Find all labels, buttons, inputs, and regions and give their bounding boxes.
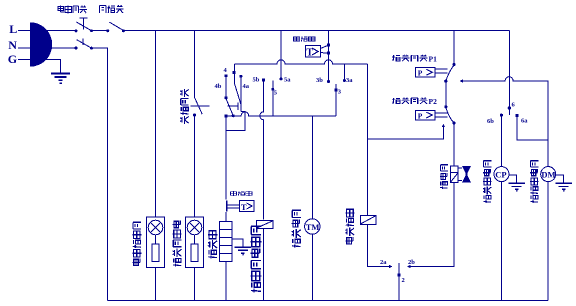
svg-text:TM: TM: [306, 222, 320, 232]
wire heater ground branch: [232, 239, 243, 247]
contact 5b: [260, 78, 265, 219]
wire DM ground branch: [556, 175, 564, 183]
relay coil K2 dispenser: [361, 216, 376, 225]
contact P1 NO arrow: [459, 79, 462, 82]
label thermostat T1: [294, 37, 315, 42]
switch blade P1: [446, 65, 454, 81]
node P2 common: [444, 105, 447, 108]
svg-text:2a: 2a: [380, 259, 387, 266]
pole 3: [334, 84, 337, 116]
svg-text:4: 4: [224, 67, 228, 74]
label water level switch P1: [392, 55, 428, 61]
wire program rail y115: [226, 112, 336, 116]
label contact 4: [224, 67, 228, 74]
wire top supply rail: [123, 30, 509, 32]
lamp HL2 heating indicator: [186, 217, 204, 268]
wire L to switch: [30, 30, 77, 32]
svg-text:6: 6: [512, 102, 516, 109]
motor CP circulation pump: [494, 167, 509, 182]
wire common 4 from rail: [233, 64, 235, 82]
label contact 4a: [243, 83, 250, 90]
wire heater to bus: [225, 262, 227, 301]
wire 3a stub: [343, 64, 345, 79]
label contact 3b: [316, 77, 323, 84]
label door switch: [100, 5, 124, 13]
inlet valve coil YV: [451, 166, 459, 183]
thermostat T1: [306, 46, 328, 59]
label power indicator lamp: [133, 222, 142, 265]
wire 2b to inlet valve: [411, 183, 454, 267]
label contact 6a: [521, 118, 528, 125]
node P1 throw: [444, 80, 447, 83]
wire N lead: [18, 47, 30, 49]
wire P1 common drop: [453, 31, 455, 64]
svg-text:5: 5: [274, 90, 278, 97]
wire lamp1 to bus: [155, 268, 157, 301]
wire P2 right to valve: [453, 123, 455, 166]
switch blade P2: [446, 107, 454, 122]
svg-text:3a: 3a: [346, 77, 353, 84]
wire 3b drop: [328, 31, 330, 81]
label contact 3a: [346, 77, 353, 84]
label contact 5: [274, 90, 278, 97]
svg-text:P2: P2: [429, 97, 438, 106]
wire G lead: [18, 59, 30, 61]
svg-text:N: N: [8, 38, 17, 52]
svg-text:P1: P1: [429, 55, 438, 64]
wire N rail left: [92, 48, 108, 301]
svg-text:2b: 2b: [408, 259, 415, 266]
wire control rail y63: [235, 60, 368, 64]
svg-text:6a: 6a: [521, 118, 528, 125]
switch blade 4 lower: [226, 99, 233, 115]
wire lamp2 to bus: [194, 268, 196, 301]
label contact 5a: [284, 77, 291, 84]
label contact 2a: [380, 259, 387, 266]
label contact 6b: [487, 118, 494, 125]
pressure switch P2 box: [416, 110, 448, 120]
label heater: [208, 231, 217, 259]
svg-text:L: L: [9, 22, 17, 36]
svg-text:5b: 5b: [253, 77, 260, 84]
wire selector drop: [194, 31, 196, 98]
svg-text:T: T: [306, 48, 313, 59]
ground (heater): [235, 247, 251, 255]
switch S3 selector: [190, 97, 209, 116]
node L: [9, 22, 17, 36]
svg-text:5a: 5a: [284, 77, 291, 84]
svg-text:T: T: [241, 202, 247, 212]
mechanical link tick group4: [227, 102, 238, 110]
label inlet valve: [440, 165, 448, 189]
wire heater column: [225, 117, 227, 221]
contact 4: [225, 74, 228, 96]
switch S1a power L pole: [75, 18, 93, 33]
node T1 upper contact: [327, 44, 330, 47]
node heater tap: [225, 114, 228, 117]
svg-text:DM: DM: [541, 169, 555, 179]
contact 4a: [239, 75, 242, 112]
wire 4a stub to heater column: [226, 112, 245, 131]
power plug: [30, 22, 52, 66]
label contact 4b: [215, 83, 222, 90]
switch S1b power N pole: [75, 38, 93, 49]
svg-text:P: P: [418, 69, 423, 78]
node blade4 tip: [232, 114, 235, 117]
wire solenoid to bus: [263, 229, 265, 301]
wire bottom neutral bus: [108, 300, 549, 302]
contact 5a: [280, 31, 283, 81]
pole 2 blade: [398, 263, 401, 301]
wire dispenser to contact 2a: [368, 224, 390, 266]
node 3a: [343, 79, 346, 82]
switch blade 4 upper: [234, 83, 241, 105]
node P1 common: [453, 63, 456, 66]
label contact 2: [402, 277, 405, 284]
node 3b: [327, 80, 330, 83]
contact 2b arrow: [407, 265, 411, 269]
node N: [8, 38, 17, 52]
thermostat T2: [227, 201, 254, 212]
svg-text:2: 2: [402, 277, 405, 284]
node 6: [508, 106, 511, 109]
switch S2 door: [106, 22, 125, 32]
label selector switch: [180, 89, 189, 124]
svg-text:3b: 3b: [316, 77, 323, 84]
wire dispenser drop: [367, 64, 369, 215]
node 4b pivot: [225, 96, 228, 99]
relay coil K1: [257, 221, 274, 229]
node common 4: [233, 71, 236, 74]
ground (plug): [51, 74, 70, 85]
wire P1 NO to DM with hop: [463, 77, 548, 167]
lamp HL1 power indicator: [147, 217, 165, 268]
wire right rail drop: [508, 31, 510, 116]
node T1 lower contact: [327, 52, 330, 55]
heater EH: [220, 222, 232, 262]
wire CP ground branch: [509, 175, 517, 183]
svg-text:6b: 6b: [487, 118, 494, 125]
wire P2 left throw to dispenser: [368, 127, 444, 139]
contact 5: [271, 81, 274, 116]
node P2 throw right: [452, 121, 455, 124]
label dishwasher solenoid: [251, 226, 262, 292]
pressure switch P1 box: [416, 68, 448, 78]
wire P1 to P2: [445, 81, 447, 106]
svg-text:CP: CP: [495, 169, 506, 179]
label contact 5b: [253, 77, 260, 84]
label power switch: [58, 6, 87, 14]
wire lamp2 drop: [194, 115, 196, 217]
motor DM drain pump: [541, 167, 556, 182]
label contact 6: [512, 102, 516, 109]
contact 6b: [500, 114, 503, 167]
ground (DM): [556, 183, 572, 191]
svg-text:G: G: [8, 52, 17, 66]
label thermostat T2: [230, 191, 252, 196]
wire TM to bus: [311, 234, 313, 300]
label timer motor: [292, 210, 301, 247]
contact 2a arrow: [389, 265, 393, 269]
label contact 3: [338, 89, 342, 96]
contact 6a: [516, 114, 549, 140]
label contact 2b: [408, 259, 415, 266]
ground (CP): [509, 183, 525, 191]
wire L lead: [18, 30, 30, 32]
svg-text:P: P: [418, 111, 423, 120]
wire TM drop: [311, 116, 313, 219]
wire G to ground: [46, 60, 61, 73]
label water level switch P2: [392, 98, 428, 104]
wire CP to bus: [501, 182, 503, 301]
svg-text:4a: 4a: [243, 83, 250, 90]
svg-text:3: 3: [338, 89, 342, 96]
label circulation pump motor: [483, 161, 492, 203]
node G: [8, 52, 17, 66]
label drain pump motor: [530, 161, 538, 203]
wire L between switches: [92, 30, 108, 32]
label heating indicator lamp: [173, 221, 182, 267]
wire lamp1 drop: [155, 31, 157, 218]
svg-text:4b: 4b: [215, 83, 222, 90]
contact P2 throw left arrow: [442, 124, 445, 128]
wire DM to bus: [547, 182, 549, 301]
valve symbol: [458, 166, 471, 183]
wire N through plug: [30, 47, 77, 49]
motor TM timer: [305, 219, 320, 234]
label auto dispenser: [345, 209, 354, 244]
